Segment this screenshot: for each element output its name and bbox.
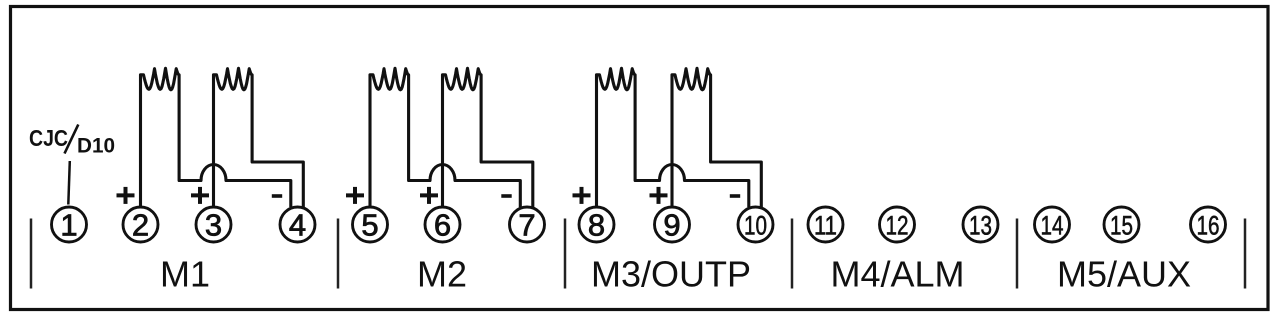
svg-text:16: 16 <box>1197 211 1220 241</box>
svg-text:15: 15 <box>1110 211 1133 241</box>
svg-text:11: 11 <box>814 211 837 241</box>
svg-text:9: 9 <box>663 208 680 243</box>
svg-text:10: 10 <box>744 211 767 241</box>
svg-text:M4/ALM: M4/ALM <box>830 254 964 295</box>
svg-text:M1: M1 <box>160 254 210 295</box>
svg-text:8: 8 <box>588 208 605 243</box>
svg-text:M3/OUTP: M3/OUTP <box>591 254 751 295</box>
svg-text:3: 3 <box>205 208 222 243</box>
svg-text:12: 12 <box>886 211 909 241</box>
svg-text:M2: M2 <box>417 254 467 295</box>
svg-text:6: 6 <box>434 208 451 243</box>
svg-text:2: 2 <box>132 208 149 243</box>
svg-text:14: 14 <box>1041 211 1064 241</box>
svg-text:M5/AUX: M5/AUX <box>1057 254 1191 295</box>
svg-text:D10: D10 <box>77 135 115 158</box>
svg-text:CJC: CJC <box>29 125 68 151</box>
svg-text:5: 5 <box>361 208 378 243</box>
svg-text:4: 4 <box>289 208 306 243</box>
svg-text:13: 13 <box>969 211 992 241</box>
svg-text:1: 1 <box>60 208 77 243</box>
svg-text:7: 7 <box>518 208 535 243</box>
